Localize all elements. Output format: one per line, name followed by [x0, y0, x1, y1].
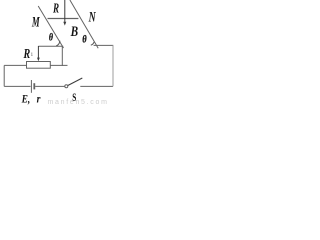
- right angle arc: [91, 42, 94, 45]
- wire: switch to right corner: [80, 85, 113, 87]
- svg-text:M: M: [31, 13, 40, 30]
- svg-text:1: 1: [31, 52, 33, 58]
- B field arrowhead: [63, 22, 66, 26]
- right ground line: [94, 44, 114, 46]
- svg-text:E,: E,: [21, 94, 31, 105]
- svg-text:R: R: [23, 45, 31, 61]
- wire: left vertical: [3, 65, 5, 86]
- wire: battery to switch: [35, 85, 64, 87]
- svg-text:manfen5.com: manfen5.com: [48, 99, 109, 105]
- slider wire of rheostat: [37, 46, 39, 59]
- switch pivot circle: [65, 85, 68, 88]
- wire: right vertical: [112, 45, 114, 86]
- svg-text:θ: θ: [49, 33, 53, 44]
- rail N (right inclined rail): [70, 0, 98, 48]
- svg-text:R: R: [52, 1, 59, 16]
- svg-text:B: B: [70, 23, 79, 40]
- rod R (sliding rod across rails): [48, 18, 79, 20]
- wire: bottom left to battery: [4, 85, 30, 87]
- rheostat slider arrowhead: [37, 58, 40, 62]
- wire: left rail foot down to R1 right wire: [61, 46, 63, 66]
- left angle arc: [56, 41, 60, 46]
- rail M (left inclined rail): [38, 6, 63, 48]
- svg-text:r: r: [37, 93, 42, 105]
- svg-text:N: N: [88, 9, 97, 25]
- battery short plate: [33, 83, 35, 89]
- battery long plate: [30, 80, 32, 93]
- B field arrow shaft: [64, 0, 66, 23]
- resistor R1 box: [27, 62, 51, 69]
- switch lever: [68, 78, 83, 86]
- svg-text:θ: θ: [82, 34, 86, 46]
- left ground line: [38, 45, 63, 47]
- wire: R1 right terminal with stub: [50, 64, 68, 66]
- wire: R1 left terminal: [4, 64, 26, 66]
